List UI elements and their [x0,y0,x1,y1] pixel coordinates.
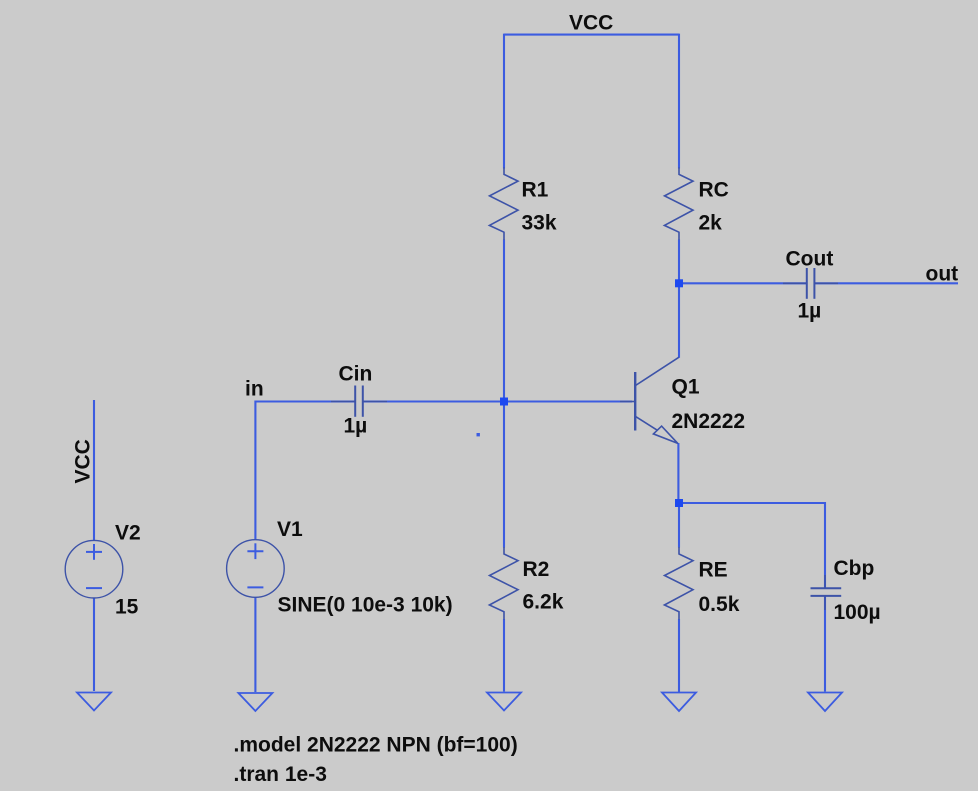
svg-text:RC: RC [699,179,729,202]
wire [503,240,505,402]
svg-text:RE: RE [699,559,728,582]
resistor R2 [489,547,518,620]
wire [678,619,680,693]
svg-text:.tran 1e-3: .tran 1e-3 [234,763,327,786]
wire [504,34,679,36]
svg-text:out: out [926,263,959,286]
resistor RC [664,167,693,240]
wire [93,400,95,541]
svg-text:SINE(0 10e-3 10k): SINE(0 10e-3 10k) [278,594,453,617]
wire [503,34,505,169]
svg-text:33k: 33k [522,212,557,235]
voltage source V2 [65,540,123,598]
svg-text:Cin: Cin [339,363,373,386]
capacitor Cbp [811,575,842,610]
wire [254,401,256,541]
svg-text:Cbp: Cbp [834,557,875,580]
svg-text:Cout: Cout [786,248,834,271]
ground (Cbp) [808,693,842,712]
wire [503,619,505,692]
capacitor Cin [331,386,387,417]
ground (V2) [77,693,111,711]
capacitor Cout [783,268,838,299]
svg-text:100µ: 100µ [834,601,881,624]
svg-text:1µ: 1µ [344,415,368,438]
wire [824,596,826,692]
svg-text:R2: R2 [523,558,550,581]
wire [679,502,825,504]
wire [677,443,679,503]
resistor RE [664,547,693,620]
svg-text:R1: R1 [522,179,549,202]
wire [93,598,95,692]
ground (V1) [238,693,272,711]
wire [504,400,632,402]
voltage source V1 [227,540,285,598]
svg-text:V2: V2 [115,522,141,545]
svg-text:6.2k: 6.2k [523,591,564,614]
svg-text:1µ: 1µ [798,300,822,323]
wire [679,282,806,284]
wire [678,282,680,358]
node base junction [500,398,508,406]
wire [678,240,680,284]
svg-text:15: 15 [115,596,139,619]
node emitter junction [675,499,683,507]
node collector junction [675,279,683,287]
ground (RE) [662,693,696,712]
ground (R2) [487,693,521,711]
svg-text:VCC: VCC [72,439,95,483]
svg-text:VCC: VCC [569,12,613,35]
svg-text:Q1: Q1 [672,376,700,399]
transistor Q1 (NPN 2N2222) [620,357,679,443]
wire [363,400,504,402]
svg-text:.model 2N2222 NPN (bf=100): .model 2N2222 NPN (bf=100) [234,734,518,757]
stray marker dot [477,433,480,436]
svg-text:2N2222: 2N2222 [672,410,746,433]
wire [256,400,355,402]
wire [815,282,958,284]
svg-text:in: in [245,378,264,401]
wire [254,597,256,692]
wire [678,34,680,169]
svg-text:V1: V1 [277,518,303,541]
svg-text:0.5k: 0.5k [699,593,740,616]
wire [503,402,505,548]
wire [824,502,826,588]
wire [678,503,680,548]
resistor R1 [489,167,518,240]
svg-text:2k: 2k [699,212,723,235]
